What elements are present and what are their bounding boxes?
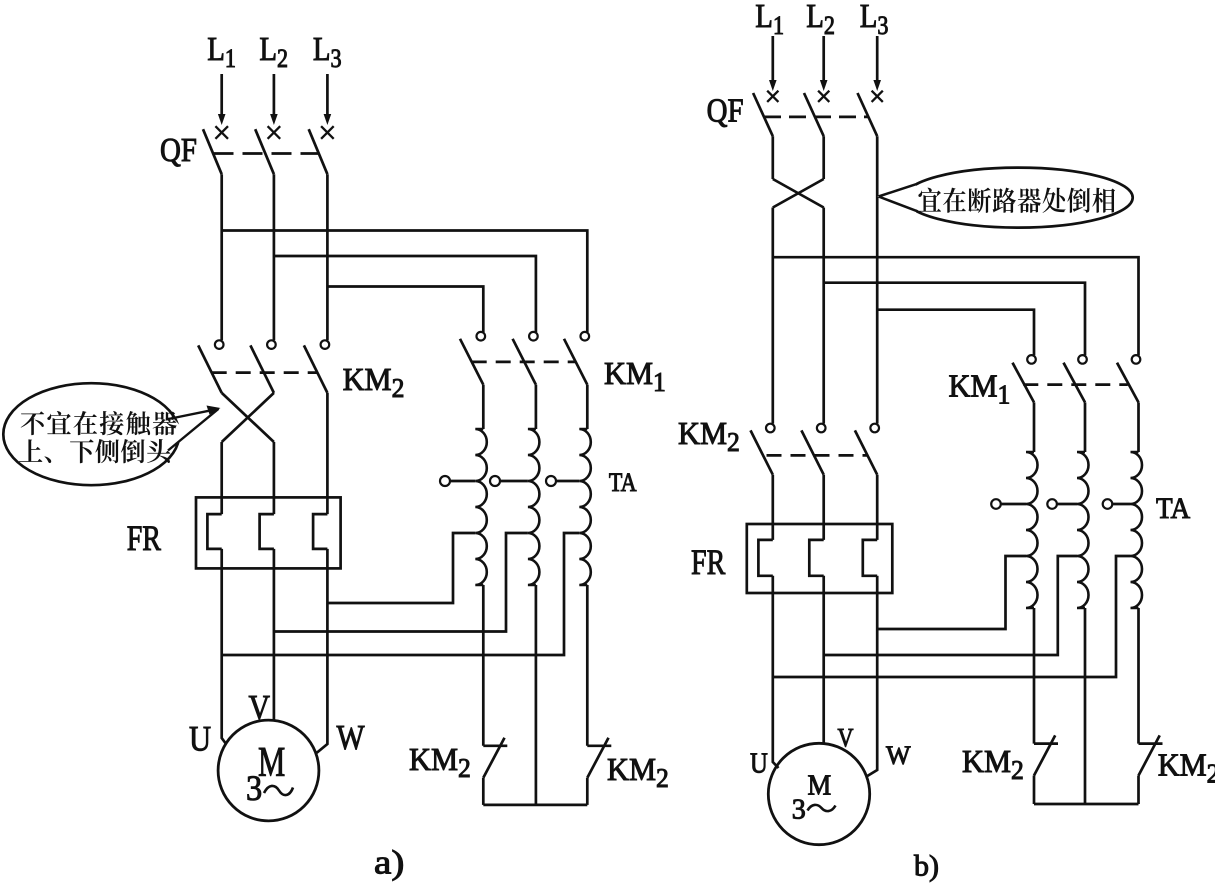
svg-text:QF: QF — [160, 131, 197, 169]
svg-text:M: M — [808, 769, 832, 801]
svg-text:W: W — [886, 741, 911, 770]
svg-text:3: 3 — [792, 795, 806, 826]
svg-text:QF: QF — [707, 91, 744, 129]
svg-text:FR: FR — [691, 542, 726, 582]
svg-text:V: V — [838, 725, 854, 753]
svg-text:V: V — [249, 689, 271, 728]
svg-text:KM2: KM2 — [1158, 747, 1215, 789]
svg-text:b): b) — [914, 849, 939, 882]
svg-text:a): a) — [374, 843, 404, 881]
svg-text:W: W — [337, 719, 365, 758]
svg-text:TA: TA — [1156, 492, 1190, 525]
svg-text:FR: FR — [127, 518, 162, 558]
svg-text:3: 3 — [246, 768, 262, 808]
svg-text:U: U — [189, 719, 211, 759]
svg-text:TA: TA — [609, 469, 637, 497]
svg-text:U: U — [750, 747, 768, 779]
